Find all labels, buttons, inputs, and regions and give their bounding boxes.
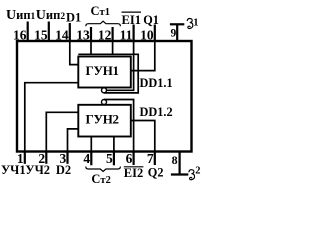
svg-text:EI2: EI2 [124, 166, 143, 180]
svg-text:15: 15 [34, 27, 48, 42]
svg-text:УЧ2: УЧ2 [25, 163, 50, 177]
svg-text:ГУН2: ГУН2 [86, 111, 119, 126]
svg-text:12: 12 [98, 27, 112, 42]
svg-text:D1: D1 [66, 11, 81, 25]
svg-text:D2: D2 [56, 163, 71, 177]
svg-text:EI1: EI1 [122, 13, 141, 27]
svg-text:4: 4 [83, 151, 90, 166]
svg-text:Cт2: Cт2 [91, 172, 110, 186]
svg-text:Q1: Q1 [143, 13, 159, 27]
svg-text:8: 8 [172, 153, 178, 167]
svg-text:5: 5 [106, 151, 113, 166]
svg-text:11: 11 [120, 27, 133, 42]
svg-text:УЧ1: УЧ1 [1, 163, 26, 177]
svg-text:ГУН1: ГУН1 [86, 63, 119, 78]
svg-text:Q2: Q2 [148, 165, 164, 179]
svg-text:7: 7 [147, 151, 154, 166]
svg-text:DD1.2: DD1.2 [140, 105, 173, 119]
svg-text:DD1.1: DD1.1 [140, 76, 173, 90]
svg-text:2: 2 [195, 166, 200, 177]
svg-text:14: 14 [55, 27, 69, 42]
svg-text:6: 6 [126, 151, 133, 166]
svg-text:16: 16 [13, 27, 27, 42]
svg-text:13: 13 [76, 27, 90, 42]
svg-text:9: 9 [170, 27, 176, 39]
svg-text:1: 1 [193, 18, 198, 29]
svg-text:10: 10 [140, 27, 154, 42]
svg-text:Cт1: Cт1 [91, 4, 110, 18]
